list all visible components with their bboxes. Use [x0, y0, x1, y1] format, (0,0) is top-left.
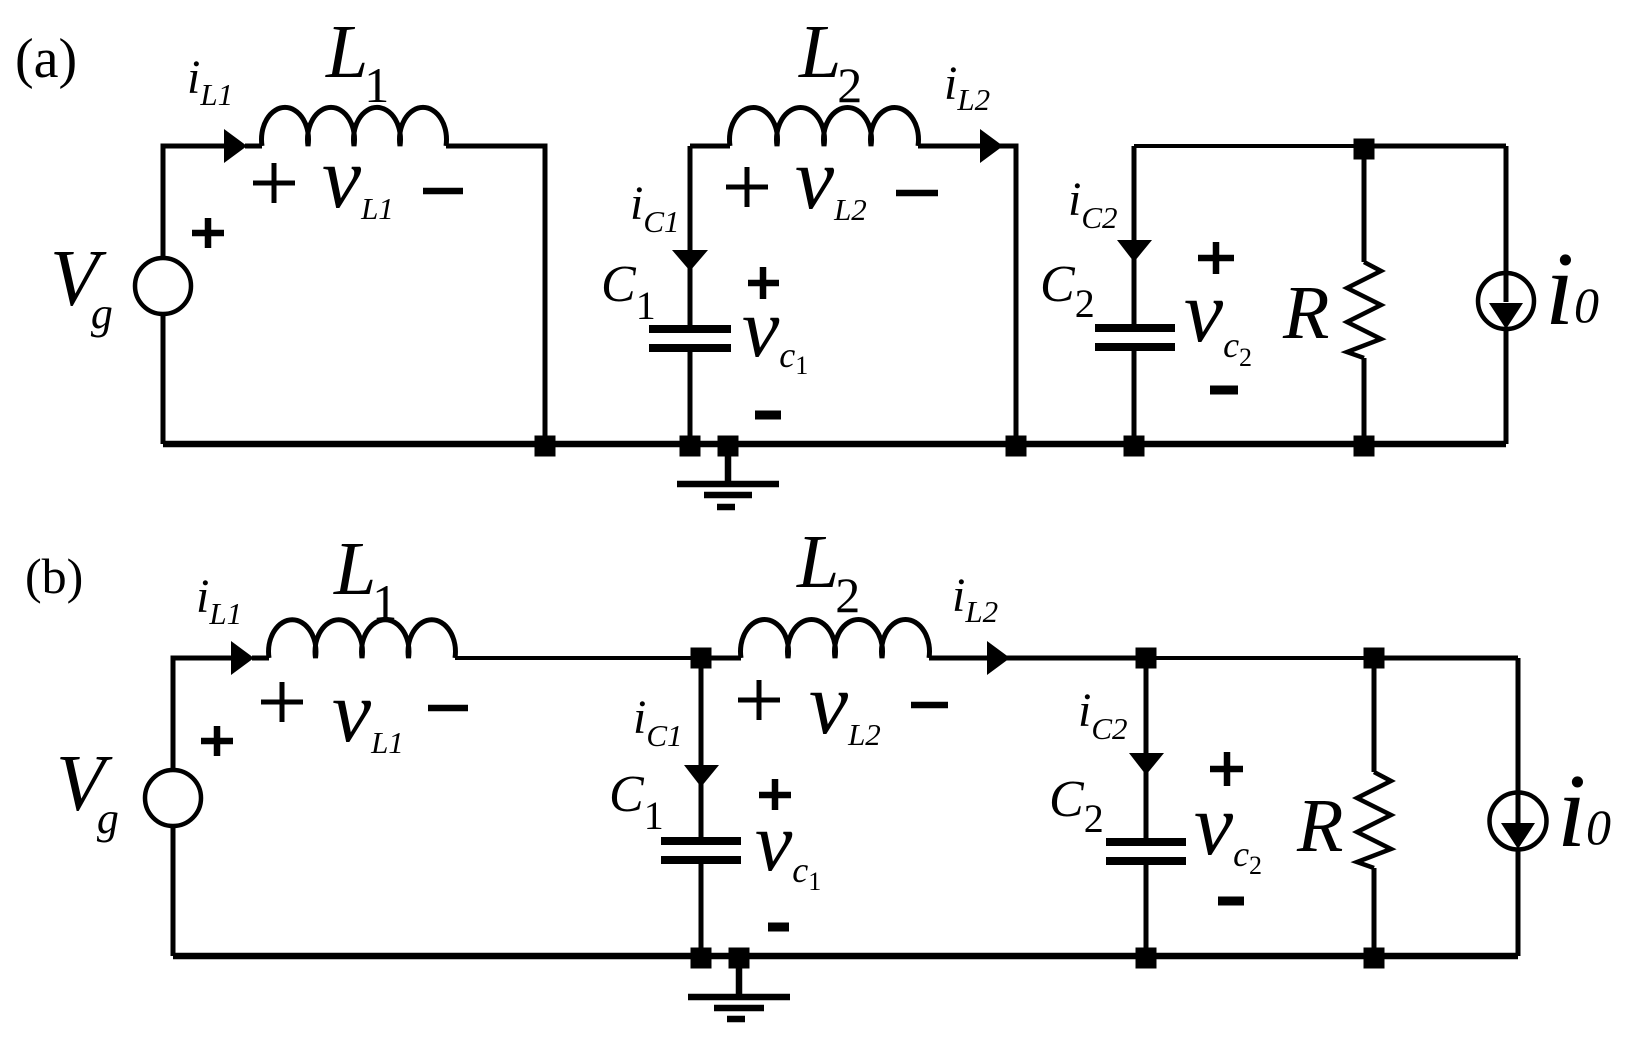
wire L1 to node (b)	[455, 656, 701, 660]
capacitor C1 plates (b)	[661, 841, 741, 860]
plus sign v_L2 (b)	[738, 680, 780, 720]
svg-text:vL2: vL2	[795, 131, 867, 228]
svg-text:vc1: vc1	[755, 796, 821, 896]
current source i0 arrow (b)	[1501, 823, 1535, 849]
wire R to i0 top (a)	[1364, 144, 1506, 149]
current arrow i_L2 (b)	[987, 641, 1010, 675]
minus sign v_c2 (a)	[1210, 386, 1238, 395]
svg-text:L1: L1	[325, 10, 389, 113]
inductor L2 (b)	[741, 620, 930, 658]
current arrow i_C1 (b)	[684, 765, 719, 787]
wire Vg top to L1 (b)	[173, 658, 234, 770]
junction node L1-C1-L2 (b)	[691, 648, 712, 669]
svg-text:Vg: Vg	[50, 235, 113, 338]
bottom rail (a)	[163, 441, 1506, 448]
plus sign v_L1 (b)	[261, 682, 303, 722]
svg-text:C1: C1	[609, 766, 664, 838]
junction node R bottom (b)	[1364, 948, 1385, 969]
wire C2 to R top (b)	[1146, 656, 1374, 660]
current arrow i_C2 (b)	[1129, 753, 1164, 775]
wire i0 bottom (a)	[1504, 327, 1509, 444]
junction node R top (a)	[1354, 139, 1375, 160]
inductor L1 (b)	[269, 620, 456, 658]
wire C2 top (b)	[1144, 658, 1149, 838]
minus sign v_L2 (a)	[896, 190, 938, 197]
svg-text:C2: C2	[1040, 256, 1095, 326]
wire i0 top (b)	[1516, 658, 1521, 824]
current arrow i_L1 (b)	[231, 641, 254, 675]
svg-text:0: 0	[1574, 277, 1599, 333]
svg-text:C1: C1	[601, 256, 656, 328]
wire C1 bottom (b)	[699, 864, 704, 956]
plus sign v_c1 (b)	[759, 779, 791, 810]
wire i0 bottom (b)	[1516, 849, 1521, 956]
wire R to i0 top (b)	[1374, 656, 1518, 661]
current source i0 arrow (a)	[1489, 303, 1523, 329]
wire R upper (a)	[1362, 146, 1367, 262]
voltage source Vg (a)	[135, 258, 191, 314]
plus sign v_c2 (a)	[1198, 242, 1234, 274]
junction node ground (a)	[718, 436, 739, 457]
svg-text:vL1: vL1	[322, 130, 394, 227]
svg-text:vL2: vL2	[809, 656, 881, 753]
wire arrow to inductor (a)	[245, 144, 262, 149]
wire R lower (b)	[1372, 868, 1377, 956]
svg-text:R: R	[1296, 784, 1343, 868]
plus sign Vg (a)	[192, 218, 224, 248]
wire R lower (a)	[1362, 358, 1367, 444]
minus sign v_c1 (b)	[768, 923, 789, 932]
junction node C1 (b)	[691, 948, 712, 969]
current arrow i_L2 (a)	[980, 129, 1003, 163]
resistor R (a)	[1347, 262, 1381, 358]
wire R upper (b)	[1372, 658, 1377, 772]
svg-text:(a): (a)	[15, 28, 77, 90]
junction node L2 right (a)	[1006, 436, 1027, 457]
svg-text:L1: L1	[333, 527, 397, 630]
capacitor C2 plates (a)	[1095, 328, 1175, 347]
junction node C2 top (b)	[1136, 648, 1157, 669]
inductor L2 (a)	[730, 108, 919, 146]
wire i0 top (a)	[1504, 146, 1509, 302]
junction node C2 (a)	[1124, 436, 1145, 457]
svg-text:Vg: Vg	[56, 740, 119, 843]
svg-text:iL1: iL1	[187, 51, 233, 112]
svg-text:vL1: vL1	[332, 664, 404, 761]
wire arrow to inductor (b)	[252, 656, 269, 661]
inductor L1 (a)	[261, 107, 446, 146]
wire C2 top (a)	[1132, 146, 1137, 324]
svg-text:i: i	[1557, 752, 1586, 869]
minus sign v_L2 (b)	[911, 702, 948, 709]
junction node C1 (a)	[680, 436, 701, 457]
ground symbol (a)	[677, 444, 779, 507]
bottom rail (b)	[173, 953, 1518, 960]
svg-text:vc2: vc2	[1194, 777, 1262, 880]
junction node R bottom (a)	[1354, 436, 1375, 457]
wire L2 to right (a)	[918, 146, 1016, 444]
svg-text:L2: L2	[798, 10, 862, 113]
capacitor C1 plates (a)	[649, 329, 731, 348]
minus sign v_L1 (a)	[423, 188, 463, 195]
wire L2 left stub (a)	[690, 144, 730, 149]
svg-text:vc1: vc1	[742, 282, 808, 380]
wire C2 to R top (a)	[1134, 144, 1364, 148]
svg-text:C2: C2	[1049, 771, 1104, 841]
wire C1 bottom (a)	[688, 352, 693, 444]
svg-text:iL2: iL2	[952, 569, 998, 629]
svg-text:0: 0	[1586, 799, 1611, 855]
wire C1 top (b)	[699, 658, 704, 838]
wire L2 left stub (b)	[701, 656, 741, 661]
current source i0 circle (a)	[1478, 273, 1534, 329]
plus sign v_L1 (a)	[253, 163, 295, 203]
minus sign v_L1 (b)	[428, 705, 468, 712]
svg-text:vc2: vc2	[1184, 264, 1252, 372]
wire Vg bottom (b)	[171, 826, 176, 956]
plus sign v_c1 (a)	[748, 267, 779, 299]
current arrow i_C1 (a)	[672, 250, 708, 271]
svg-text:(b): (b)	[25, 548, 83, 604]
resistor R (b)	[1357, 772, 1391, 868]
plus sign v_L2 (a)	[726, 167, 768, 207]
minus sign v_c2 (b)	[1218, 897, 1244, 906]
svg-text:i: i	[1545, 230, 1574, 347]
svg-text:iL1: iL1	[196, 570, 242, 631]
svg-text:R: R	[1282, 271, 1329, 355]
wire Vg bottom (a)	[161, 314, 166, 444]
current source i0 circle (b)	[1490, 793, 1547, 850]
junction node R top (b)	[1364, 648, 1385, 669]
junction node loop1 (a)	[535, 436, 556, 457]
wire C2 bottom (a)	[1132, 351, 1137, 444]
junction node ground (b)	[729, 948, 750, 969]
wire L2 to C2 node (b)	[929, 656, 1146, 661]
voltage source Vg (b)	[145, 770, 201, 826]
current arrow i_L1 (a)	[224, 129, 247, 163]
wire Vg top to L1 (a)	[163, 146, 226, 258]
wire L1 to bottom rail (a)	[446, 146, 545, 444]
svg-text:iC1: iC1	[630, 177, 680, 239]
svg-text:iL2: iL2	[944, 57, 990, 117]
svg-text:iC2: iC2	[1068, 173, 1118, 235]
svg-text:iC1: iC1	[633, 691, 683, 753]
svg-text:L2: L2	[796, 520, 860, 623]
wire C2 bottom (b)	[1144, 865, 1149, 956]
ground symbol (b)	[688, 956, 790, 1019]
wire C1 top / L2 left (a)	[688, 146, 693, 325]
junction node C2 bottom (b)	[1136, 948, 1157, 969]
minus sign v_c1 (a)	[755, 411, 781, 420]
svg-text:iC2: iC2	[1078, 684, 1128, 746]
plus sign Vg (b)	[201, 726, 233, 756]
current arrow i_C2 (a)	[1117, 240, 1152, 262]
capacitor C2 plates (b)	[1106, 842, 1186, 861]
plus sign v_c2 (b)	[1210, 752, 1243, 786]
